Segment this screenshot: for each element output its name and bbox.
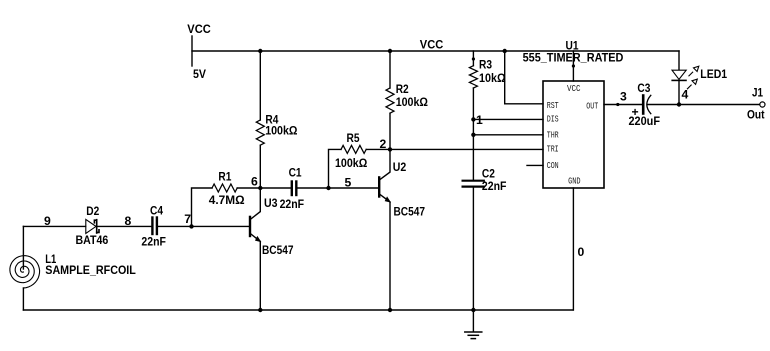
wire R2 branch upper (389, 51, 391, 88)
svg-text:4: 4 (682, 88, 689, 102)
svg-text:D2: D2 (86, 204, 99, 218)
node 4 dot (677, 102, 681, 106)
wire R4 branch upper (259, 51, 261, 120)
wire R3 bottom column to C2 (472, 88, 474, 180)
resistor R3 (469, 66, 477, 88)
svg-text:C4: C4 (150, 204, 163, 218)
wire R4 to node 6 (259, 145, 261, 188)
svg-text:100kΩ: 100kΩ (396, 95, 428, 109)
svg-text:J1: J1 (752, 86, 763, 100)
node 1 dot DIS (471, 117, 475, 121)
svg-text:220uF: 220uF (629, 114, 661, 128)
wire R5 right to node 2 (366, 148, 390, 150)
wire R2 to node 2 (389, 113, 391, 149)
wire C2 to ground rail (472, 188, 474, 310)
svg-text:BC547: BC547 (394, 205, 426, 219)
svg-text:TRI: TRI (547, 145, 559, 155)
svg-text:R2: R2 (396, 82, 409, 96)
svg-text:1: 1 (476, 113, 483, 127)
wire C4 to U3 base (158, 225, 249, 227)
svg-text:3: 3 (620, 90, 627, 104)
svg-text:U2: U2 (393, 160, 407, 174)
svg-text:RST: RST (547, 101, 559, 111)
svg-text:C1: C1 (289, 166, 302, 180)
svg-text:0: 0 (578, 245, 585, 259)
power VCC (5V supply symbol) (191, 36, 193, 66)
wire THR (473, 134, 543, 136)
svg-text:22nF: 22nF (141, 235, 166, 249)
wire node5 riser to R5 (329, 149, 342, 188)
svg-text:Out: Out (747, 108, 765, 122)
node 7 dot (189, 224, 193, 228)
svg-text:2: 2 (380, 137, 387, 151)
wire node 6 (237, 187, 291, 189)
svg-text:4.7MΩ: 4.7MΩ (209, 193, 245, 207)
diode D2 BAT46 (86, 219, 96, 233)
resistor R2 (386, 88, 394, 113)
wire top VCC rail (192, 50, 679, 52)
node dot VCC pin (572, 64, 575, 67)
node 3 dot (616, 103, 619, 106)
svg-text:7: 7 (184, 212, 191, 226)
capacitor C1 (292, 182, 297, 196)
svg-text:R1: R1 (218, 170, 231, 184)
svg-text:THR: THR (547, 130, 560, 140)
ground (465, 310, 482, 339)
svg-text:6: 6 (251, 175, 258, 189)
node dot rail/U2e (388, 308, 392, 312)
svg-text:100kΩ: 100kΩ (335, 156, 367, 170)
svg-text:GND: GND (568, 176, 581, 186)
svg-text:VCC: VCC (420, 38, 444, 52)
wire GND pin riser (572, 188, 574, 310)
node dot rail/RST (503, 49, 507, 53)
capacitor C4 (152, 218, 157, 235)
resistor R1 (212, 184, 237, 192)
resistor R5 (341, 145, 366, 153)
svg-text:C3: C3 (637, 81, 650, 95)
svg-text:R5: R5 (347, 131, 360, 145)
wire node 5 (298, 187, 379, 189)
node dot THR (471, 133, 475, 137)
svg-text:BC547: BC547 (262, 243, 294, 257)
wire CON stub (527, 164, 543, 166)
wire bottom ground rail (23, 309, 573, 311)
svg-text:22nF: 22nF (482, 179, 507, 193)
wire R3 branch from rail (472, 51, 474, 66)
LED LED1 (678, 51, 680, 70)
node dot R3 top (472, 57, 475, 60)
wire D2 to C4 (97, 225, 151, 227)
node dot rail/R4 (258, 49, 262, 53)
svg-text:10kΩ: 10kΩ (479, 71, 506, 85)
node dot rail/C2 (471, 308, 475, 312)
svg-text:BAT46: BAT46 (76, 233, 109, 247)
op-amp U1 555 timer box (543, 81, 604, 188)
svg-text:100kΩ: 100kΩ (265, 124, 297, 138)
svg-text:CON: CON (547, 161, 559, 171)
transistor U3 (250, 188, 260, 310)
node 5 dot (326, 186, 330, 190)
svg-text:22nF: 22nF (280, 197, 305, 211)
node 6 dot (258, 186, 262, 190)
svg-text:5V: 5V (193, 67, 207, 81)
svg-text:555_TIMER_RATED: 555_TIMER_RATED (523, 51, 624, 65)
node dot rail/U3e (258, 308, 262, 312)
svg-text:DIS: DIS (547, 115, 559, 125)
wire node 7 (23, 225, 85, 227)
wire DIS (473, 118, 543, 120)
svg-text:OUT: OUT (586, 102, 598, 112)
svg-text:VCC: VCC (567, 84, 581, 94)
svg-text:U3: U3 (264, 196, 278, 210)
inductor L1 coil (22, 226, 24, 269)
svg-text:SAMPLE_RFCOIL: SAMPLE_RFCOIL (45, 263, 136, 277)
wire OUT pin (604, 104, 641, 106)
svg-text:R3: R3 (479, 58, 492, 72)
wire C3 to node 4 and J1 (648, 104, 760, 106)
wire VCC pin riser (572, 51, 574, 81)
svg-text:5: 5 (345, 176, 352, 190)
node dot rail/R2 (388, 49, 392, 53)
svg-text:9: 9 (44, 214, 51, 228)
capacitor C3 (643, 95, 651, 113)
resistor R4 (256, 120, 264, 145)
svg-text:VCC: VCC (187, 22, 211, 36)
capacitor C2 (463, 181, 484, 187)
wire TRI from node 2 (390, 148, 543, 150)
connector J1 (760, 102, 765, 107)
wire RST riser (505, 51, 543, 104)
wire R1 left leg (192, 188, 213, 226)
node 2 dot (388, 147, 392, 151)
svg-text:8: 8 (125, 214, 132, 228)
svg-text:LED1: LED1 (700, 67, 727, 81)
transistor U2 (379, 149, 390, 310)
